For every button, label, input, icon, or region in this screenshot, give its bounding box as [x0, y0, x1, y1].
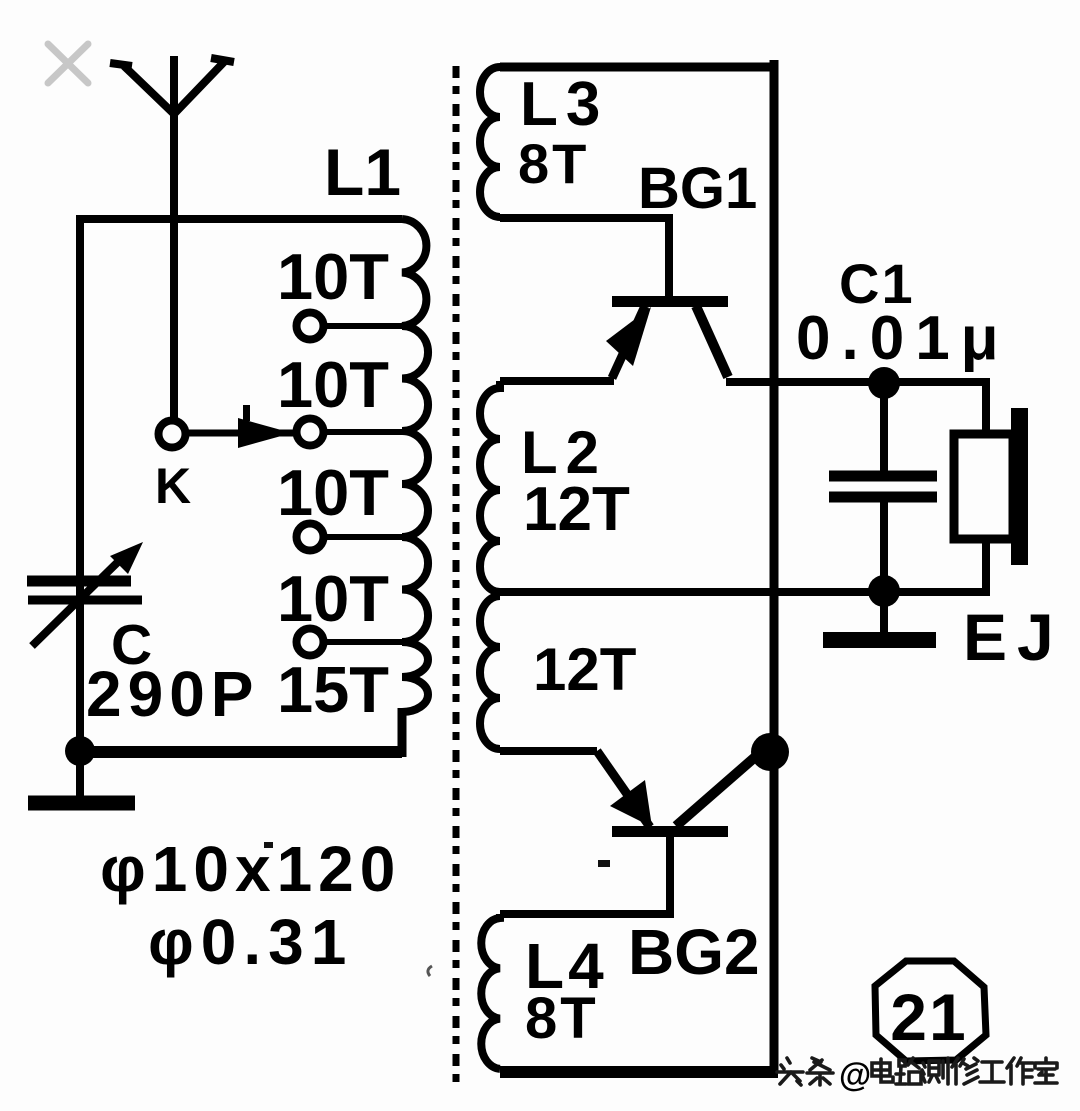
- earphone EJ: [954, 408, 1028, 565]
- wire bottom left loop: [80, 746, 402, 758]
- svg-text:0.01μ: 0.01μ: [796, 304, 1010, 373]
- variable capacitor C 290P: [27, 556, 142, 646]
- transistor BG1 (PNP): [606, 296, 728, 378]
- wire L3 bottom to BG1 base: [500, 218, 669, 297]
- tap terminal 4: [297, 629, 403, 656]
- stray mark (scan noise near ground): [264, 842, 273, 848]
- junction node BG2 collector: [751, 733, 789, 771]
- svg-text:10T: 10T: [277, 456, 389, 529]
- svg-text:L1: L1: [324, 135, 401, 209]
- svg-text:8T: 8T: [518, 132, 589, 195]
- svg-text:8T: 8T: [525, 986, 599, 1051]
- wire left vertical: [76, 215, 84, 752]
- switch K (selector with arrow): [159, 405, 295, 448]
- junction node C1 bottom: [868, 575, 900, 607]
- capacitor C1 0.01u: [829, 383, 937, 592]
- ground (right, below C1): [823, 591, 936, 640]
- wire top left loop: [77, 215, 402, 223]
- svg-text:290P: 290P: [86, 658, 259, 730]
- junction node left-bottom: [65, 736, 95, 766]
- svg-text:12T: 12T: [523, 475, 630, 544]
- ground (left): [28, 752, 135, 803]
- inductor 12T (lower half of L2): [480, 596, 500, 749]
- junction node C1 top: [868, 367, 900, 399]
- tap terminal 2: [297, 419, 403, 446]
- wire BG1 collector to C1/EJ (upper horizontal): [726, 382, 986, 436]
- antenna: [110, 56, 234, 419]
- inductor L1 (winding, taps at 10T intervals): [402, 219, 428, 712]
- wire BG1 emitter to L2: [500, 377, 614, 385]
- svg-text:φ10x120: φ10x120: [100, 833, 401, 905]
- watermark 头条@电路测修工作室: [777, 1056, 1057, 1093]
- svg-text:@: @: [839, 1056, 871, 1093]
- circled number 21: [875, 961, 986, 1061]
- stray mark (scan noise below BG2 bar): [598, 860, 610, 867]
- inductor L2 12T: [480, 381, 500, 592]
- inductor L3 8T: [480, 67, 500, 217]
- svg-text:21: 21: [890, 980, 967, 1054]
- close icon ×: [48, 44, 88, 83]
- wire right main vertical: [770, 60, 779, 1072]
- svg-text:EJ: EJ: [963, 600, 1064, 674]
- inductor L4 8T: [481, 914, 500, 1069]
- svg-text:K: K: [155, 458, 191, 514]
- svg-text:BG1: BG1: [638, 156, 757, 221]
- wire L4 bottom to main vertical: [500, 1066, 778, 1078]
- wire top right loop: [500, 63, 778, 72]
- svg-text:L3: L3: [520, 70, 608, 139]
- stray mark (scan noise near dashed line): [428, 966, 432, 976]
- transistor BG2 (PNP): [597, 751, 762, 837]
- svg-text:10T: 10T: [277, 562, 389, 635]
- svg-text:10T: 10T: [277, 240, 389, 313]
- svg-text:10T: 10T: [277, 348, 389, 421]
- svg-text:BG2: BG2: [628, 916, 760, 988]
- tap terminal 3: [297, 524, 403, 551]
- svg-text:15T: 15T: [277, 653, 389, 726]
- ferrite rod (dashed line): [453, 66, 460, 1088]
- svg-text:φ0.31: φ0.31: [148, 906, 353, 978]
- wire 12T bottom to BG2 emitter: [500, 747, 597, 755]
- tap terminal 1: [297, 313, 403, 340]
- svg-text:12T: 12T: [533, 636, 636, 703]
- wire center tap to EJ (lower horizontal): [500, 539, 986, 592]
- wire BG2 base to L4: [500, 837, 670, 914]
